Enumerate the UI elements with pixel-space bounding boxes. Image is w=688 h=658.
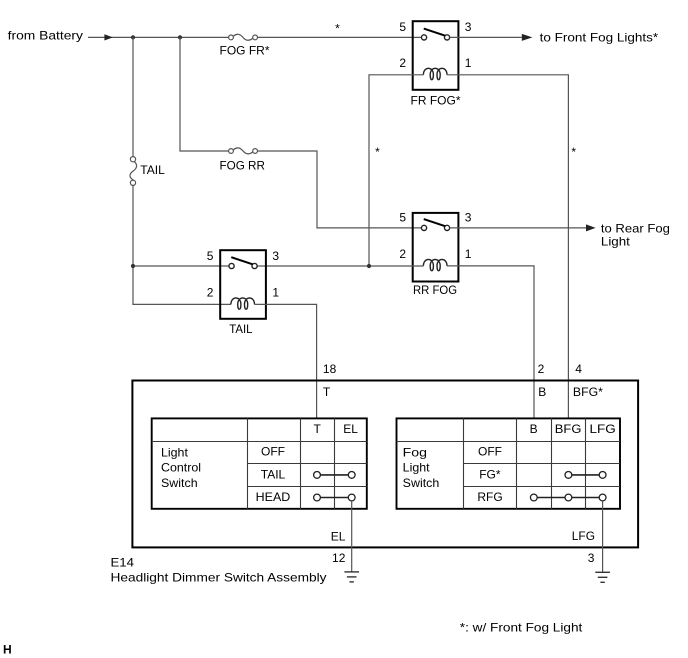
switch table: Fog Light Switch	[397, 418, 621, 508]
wire: LFG output to ground (pin 3)	[602, 501, 604, 572]
svg-text:T: T	[314, 422, 322, 436]
svg-text:B: B	[538, 385, 546, 399]
svg-text:Light: Light	[601, 235, 631, 249]
body	[220, 250, 266, 319]
svg-text:3: 3	[588, 551, 595, 565]
wire: RR FOG pin 3 to rear fog light	[450, 227, 586, 229]
svg-text:1: 1	[465, 56, 472, 70]
svg-text:2: 2	[399, 56, 406, 70]
arrow: battery feed direction	[104, 34, 112, 40]
svg-text:5: 5	[399, 20, 406, 34]
arrow: to rear fog light	[586, 224, 596, 231]
wire: FR FOG pin 1 down to switch pin 4 (BFG*)	[447, 75, 568, 419]
svg-text:E14: E14	[111, 555, 135, 569]
svg-text:5: 5	[207, 249, 214, 263]
svg-text:2: 2	[207, 286, 214, 300]
wire: EL output to ground (pin 12)	[351, 501, 353, 572]
wire: battery feed (to FOG FR fuse and FR FOG pin 5)	[88, 36, 421, 38]
wire: RR FOG pin 1 to switch pin 2 (B)	[447, 266, 534, 419]
wire: TAIL relay pin 3 to RR FOG pin 2	[257, 265, 423, 267]
svg-text:2: 2	[538, 362, 545, 376]
wire: TAIL relay pin 5 from TAIL fuse	[133, 265, 229, 267]
contact blade	[424, 219, 445, 226]
svg-text:5: 5	[399, 211, 406, 225]
connector E14 Headlight Dimmer Switch Assembly (outline)	[132, 381, 638, 548]
svg-text:Switch: Switch	[161, 476, 198, 490]
junction: battery / FOG RR branch	[178, 35, 182, 39]
svg-text:LFG: LFG	[590, 422, 616, 436]
svg-text:Headlight Dimmer Switch Assemb: Headlight Dimmer Switch Assembly	[111, 570, 327, 584]
svg-text:3: 3	[465, 20, 472, 34]
svg-text:B: B	[530, 422, 538, 436]
svg-text:3: 3	[272, 249, 279, 263]
fuse FOG RR	[229, 148, 258, 154]
contact: RFG position B-BFG-LFG	[537, 497, 599, 499]
svg-text:LFG: LFG	[572, 529, 595, 543]
contact circles	[229, 263, 234, 268]
svg-text:*: w/ Front Fog Light: *: w/ Front Fog Light	[460, 621, 583, 635]
junction: TAIL fuse / TAIL relay pin 5	[131, 264, 135, 268]
svg-text:RFG: RFG	[477, 490, 502, 504]
svg-text:2: 2	[399, 247, 406, 261]
svg-text:to Front Fog Lights*: to Front Fog Lights*	[540, 30, 659, 44]
svg-text:H: H	[3, 643, 12, 657]
svg-text:Control: Control	[161, 461, 201, 475]
svg-text:12: 12	[332, 551, 346, 565]
ground (EL pin 12)	[344, 572, 359, 582]
svg-text:FG*: FG*	[479, 468, 501, 482]
svg-text:1: 1	[465, 247, 472, 261]
switch table: Light Control Switch	[152, 418, 367, 508]
arrow: to front fog lights	[522, 34, 533, 41]
ground (LFG pin 3)	[595, 572, 610, 582]
relay RR FOG	[399, 211, 471, 282]
svg-text:TAIL: TAIL	[140, 163, 165, 177]
body	[413, 213, 459, 282]
svg-text:4: 4	[575, 362, 582, 376]
contact: HEAD position T-EL	[320, 497, 348, 499]
svg-text:HEAD: HEAD	[256, 490, 291, 504]
wire: FR FOG pin 3 to front fog lights	[450, 36, 522, 38]
coil	[231, 298, 255, 309]
svg-text:Fog: Fog	[403, 445, 427, 459]
svg-text:FOG FR*: FOG FR*	[220, 44, 270, 58]
wire: FR FOG pin 2 down to TAIL relay output net	[369, 75, 423, 266]
svg-text:*: *	[571, 145, 576, 159]
coil	[423, 259, 447, 270]
svg-text:*: *	[335, 22, 340, 36]
svg-text:RR FOG: RR FOG	[413, 283, 457, 297]
contact circles	[421, 225, 426, 230]
svg-text:TAIL: TAIL	[261, 468, 286, 482]
contact circles	[421, 35, 426, 40]
svg-text:Light: Light	[403, 461, 431, 475]
fuse FOG FR*	[229, 34, 258, 40]
junction: fog relay coil feed	[367, 264, 371, 268]
svg-text:3: 3	[465, 211, 472, 225]
svg-text:T: T	[323, 385, 331, 399]
wire: TAIL relay pin 1 to switch pin 18 (T)	[255, 304, 317, 418]
fuse TAIL (vertical)	[132, 37, 134, 156]
svg-text:BFG*: BFG*	[573, 385, 603, 399]
svg-text:FOG RR: FOG RR	[220, 159, 266, 173]
relay TAIL	[207, 249, 280, 319]
svg-text:EL: EL	[343, 422, 358, 436]
svg-text:OFF: OFF	[261, 445, 285, 459]
svg-text:EL: EL	[331, 530, 346, 544]
contact: TAIL position T-EL	[320, 474, 348, 476]
body	[413, 21, 459, 90]
junction: battery / TAIL fuse branch	[131, 35, 135, 39]
contact: FG* position BFG-LFG	[572, 474, 599, 476]
wire: TAIL fuse output to TAIL relay pin 2	[133, 185, 231, 304]
svg-text:*: *	[375, 145, 380, 159]
contact blade	[231, 257, 252, 264]
svg-text:18: 18	[323, 362, 337, 376]
svg-text:Switch: Switch	[403, 476, 440, 490]
contact blade	[424, 29, 445, 36]
svg-text:to Rear Fog: to Rear Fog	[601, 222, 670, 236]
relay FR FOG*	[399, 20, 471, 90]
svg-text:OFF: OFF	[478, 445, 502, 459]
svg-text:from Battery: from Battery	[8, 29, 83, 43]
svg-text:FR FOG*: FR FOG*	[411, 94, 461, 108]
svg-text:1: 1	[272, 286, 279, 300]
wire: FOG RR branch from battery to RR FOG pin 5	[180, 37, 421, 228]
svg-text:Light: Light	[161, 445, 189, 459]
svg-text:BFG: BFG	[555, 422, 582, 436]
coil	[423, 68, 447, 79]
svg-text:TAIL: TAIL	[229, 322, 253, 336]
